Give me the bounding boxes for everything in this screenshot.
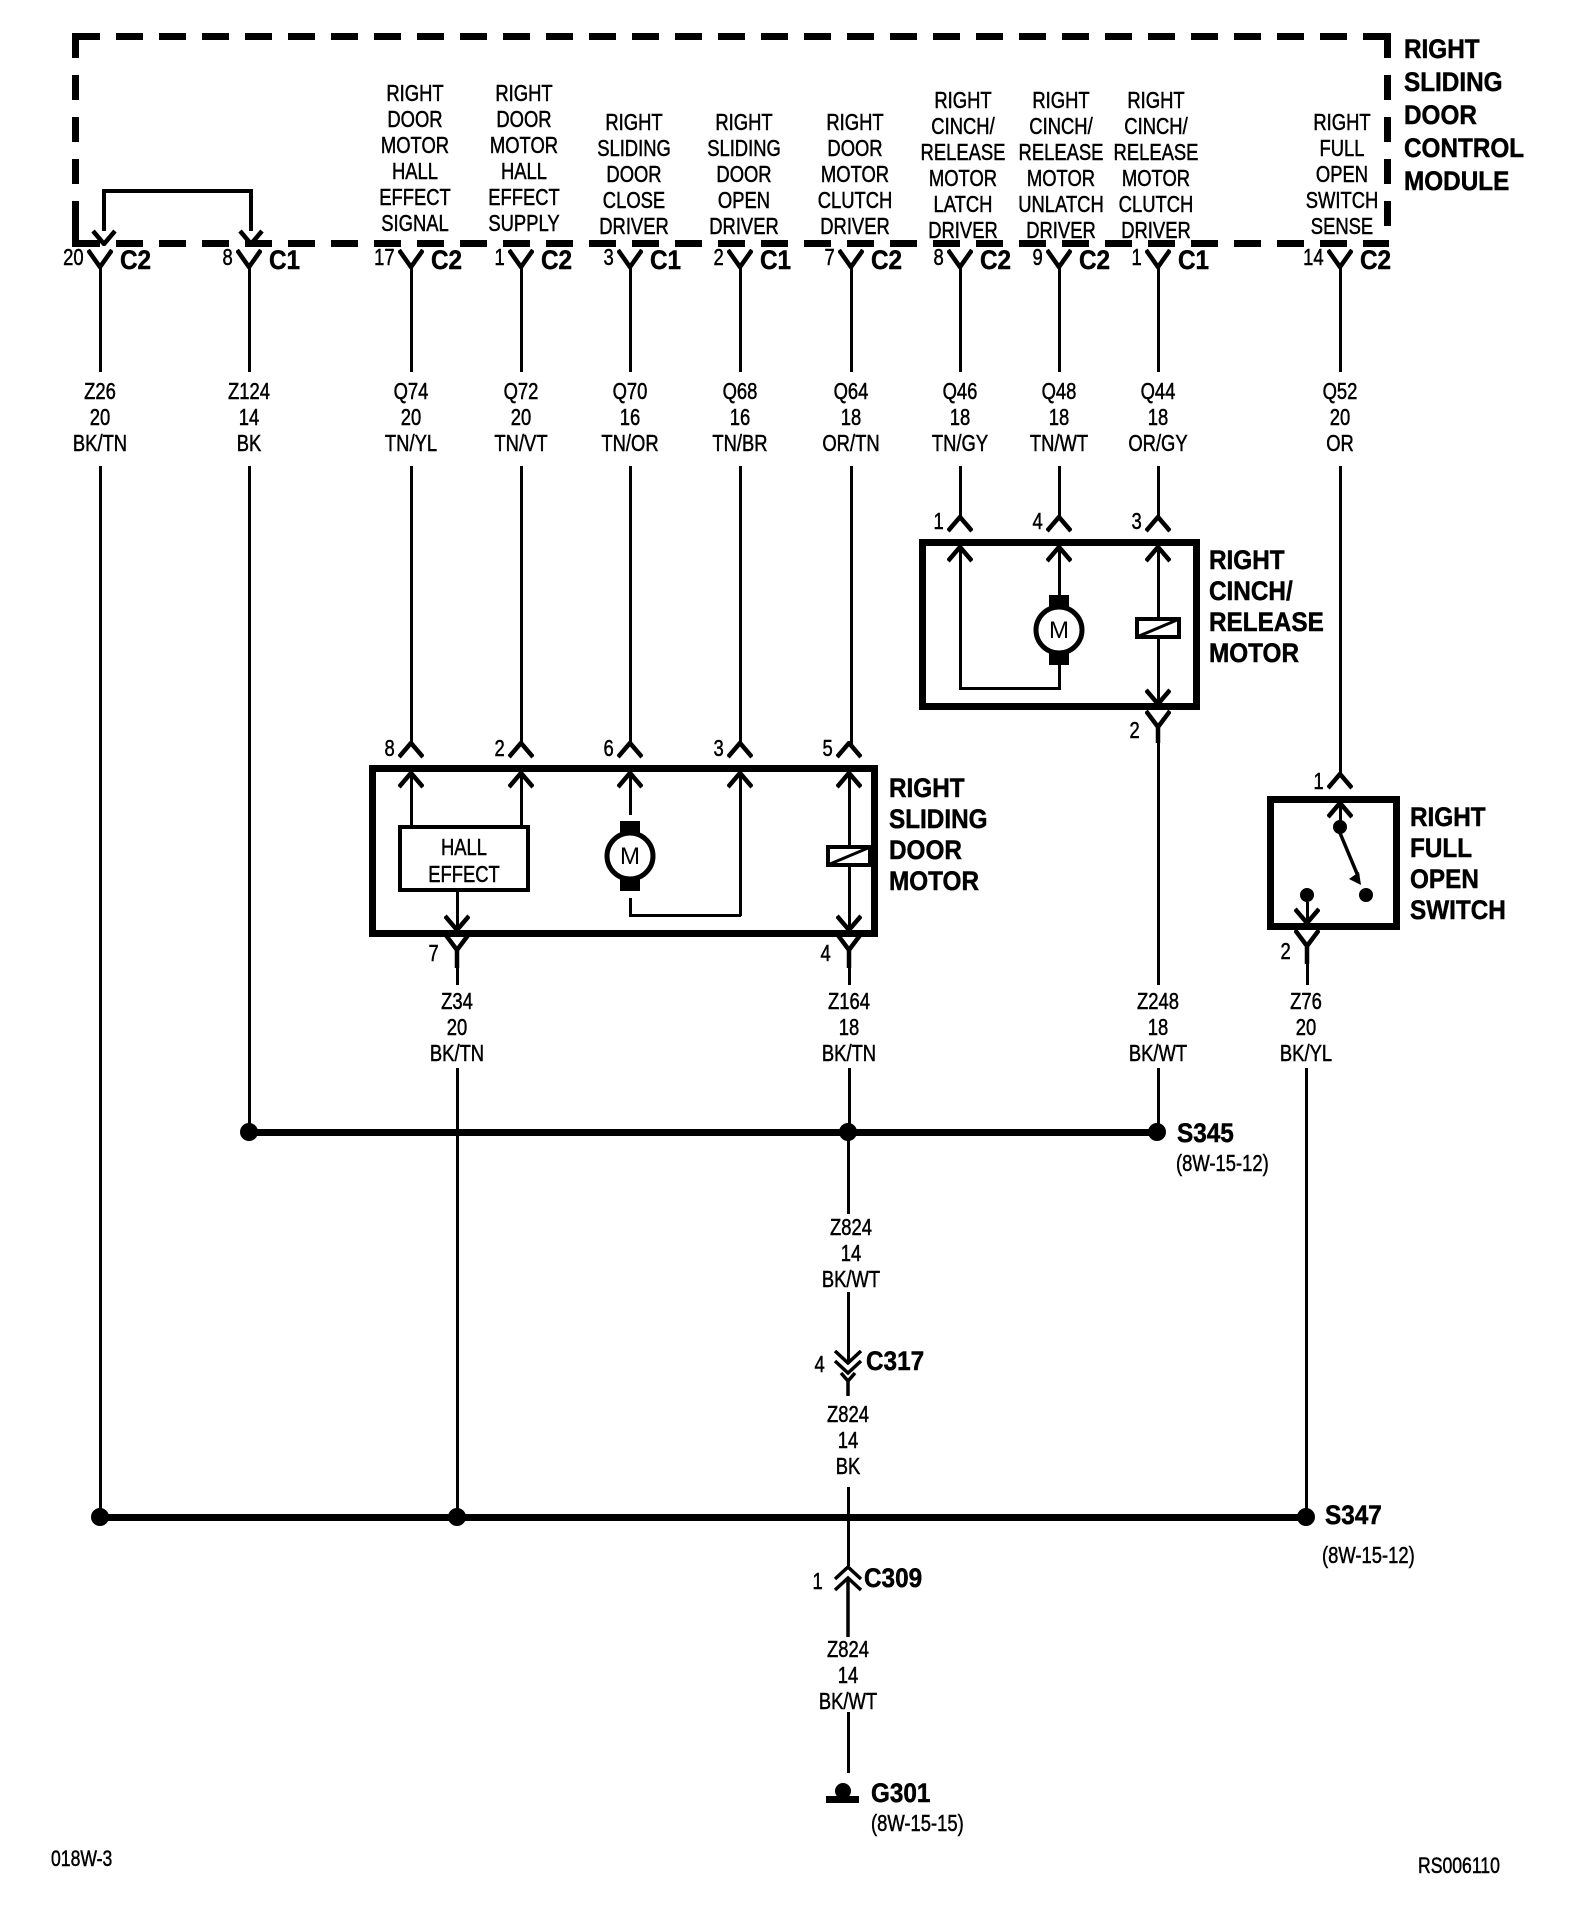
wire Q68 lower segment (739, 466, 742, 745)
switch internal wire to pin 2 (1306, 902, 1309, 922)
ground label G301 (871, 1780, 930, 1807)
pin number 3 (motor box pin 3) (714, 737, 724, 760)
wire Q46 lower segment (959, 466, 962, 519)
wire stem from pin 17 C2 (410, 265, 413, 372)
splice label S347 (1325, 1502, 1382, 1529)
wire label Q64 18 OR/TN (822, 378, 879, 456)
wire Z34 stub (456, 968, 459, 985)
ground G301 (825, 1780, 861, 1804)
module box: RIGHT SLIDING DOOR CONTROL MODULE (dashed outline) (73, 33, 1389, 40)
connector name C2 (1079, 247, 1110, 274)
wire pin 5 to clutch (848, 773, 851, 848)
wire label Z824 14 BK/WT (819, 1214, 884, 1292)
switch common contact (1333, 820, 1347, 834)
motor box pin 8 inner arrow (398, 771, 424, 789)
wire label Q48 18 TN/WT (1030, 378, 1088, 456)
svg-text:M: M (1049, 617, 1069, 644)
wire hall effect to pin 7 (456, 892, 459, 930)
motor box pin 6 entry chevron (617, 741, 643, 759)
motor box pin 4 connector (836, 933, 862, 968)
wire Z34 lower segment (456, 1068, 459, 1517)
wire stem from pin 9 C2 (1058, 265, 1061, 372)
wire stem from pin 2 C1 (739, 265, 742, 372)
wire label Z124 14 BK (228, 378, 270, 456)
pin number 14 (1304, 246, 1324, 269)
motor M sliding door (600, 814, 660, 898)
junction dot S345 middle (Z164/Z824) (839, 1123, 857, 1141)
pin number 2 (motor box pin 2) (495, 737, 505, 760)
junction dot S345 left (Z124) (240, 1123, 258, 1141)
wire Z164 lower segment (848, 1068, 851, 1132)
junction dot S347 (Z34) (448, 1508, 466, 1526)
motor box pin 5 inner arrow (836, 771, 862, 789)
wire label Q44 18 OR/GY (1128, 378, 1187, 456)
cinch internal wire pin 3 to clutch (1157, 547, 1160, 620)
pin number 5 (motor box pin 5) (823, 737, 833, 760)
motor box pin 2 inner arrow (508, 771, 534, 789)
motor box pin 7 inner arrow (444, 914, 470, 932)
in-line connector C317 (833, 1350, 863, 1396)
wire label Q74 20 TN/YL (385, 378, 437, 456)
pin function label for C1 pin 1 (1114, 87, 1199, 243)
bracket arrow left (91, 229, 117, 246)
in-line connector C309 (833, 1563, 863, 1637)
cinch internal wire clutch to pin 2 (1157, 637, 1160, 703)
component label RIGHT FULL OPEN SWITCH (1410, 802, 1506, 926)
wire stem from pin 7 C2 (850, 265, 853, 372)
wire label Z164 18 BK/TN (822, 988, 876, 1066)
wire motor negative lead (629, 898, 632, 916)
switch internal wire (1339, 803, 1342, 824)
motor box pin 3 inner arrow (727, 771, 753, 789)
wire stem from pin 1 C2 (520, 265, 523, 372)
cinch pin 1 inner arrow (947, 545, 973, 563)
wire Q64 lower segment (850, 466, 853, 745)
pin number 8 (motor box pin 8) (385, 737, 395, 760)
pin number 1 (1132, 246, 1142, 269)
wire stem from pin 20 C2 (99, 265, 102, 372)
wire Q48 lower segment (1058, 466, 1061, 519)
pin function label for C2 pin 8 (921, 87, 1006, 243)
module label (1404, 33, 1524, 198)
pin number 7 (motor box pin 7 lower) (429, 942, 439, 965)
wire pin 2 to hall effect (520, 773, 523, 825)
motor box pin 5 entry chevron (836, 741, 862, 759)
wire pin 8 to hall effect (410, 773, 413, 825)
C309 label (864, 1565, 922, 1592)
switch contact (blade side) (1359, 888, 1373, 902)
cinch internal wire from pin 1 (959, 547, 962, 690)
connector name C2 (1360, 247, 1391, 274)
junction dot S345 right (Z248) (1148, 1123, 1166, 1141)
pin number 8 (223, 246, 233, 269)
connector C1 pin 2 (727, 249, 753, 269)
cinch pin 1 entry chevron (947, 515, 973, 533)
clutch coil cinch/release (1135, 617, 1181, 639)
pin number 2 (cinch pin 2) (1130, 719, 1140, 742)
pin number 20 (64, 246, 84, 269)
internal horizontal wire (629, 914, 741, 917)
hall effect label (428, 834, 500, 888)
wire Z124 lower segment (248, 466, 251, 1132)
wire Q44 lower segment (1157, 466, 1160, 519)
wire label Z26 20 BK/TN (73, 378, 127, 456)
component box: RIGHT CINCH/RELEASE MOTOR (919, 539, 1200, 710)
connector name C2 (431, 247, 462, 274)
pin number 3 (604, 246, 614, 269)
C317 label (866, 1348, 924, 1375)
splice label S345 (1177, 1120, 1234, 1147)
wire label Z824 14 BK/WT (lower) (819, 1636, 877, 1714)
pin number 17 (375, 246, 395, 269)
switch pin 2 connector (1294, 929, 1320, 964)
pin number 4 (motor box pin 4 lower) (821, 942, 831, 965)
wire Z248 lower segment (1157, 1068, 1160, 1132)
cinch pin 3 entry chevron (1145, 515, 1171, 533)
wire Q52 lower segment (1339, 466, 1342, 776)
motor box pin 4 inner arrow (836, 914, 862, 932)
component box: RIGHT SLIDING DOOR MOTOR (369, 765, 878, 937)
connector C2 pin 20 (87, 249, 113, 269)
wire stem from pin 3 C1 (629, 265, 632, 372)
pin number 7 (825, 246, 835, 269)
motor M cinch/release (1029, 588, 1089, 672)
connector name C2 (120, 247, 151, 274)
pin function label for C2 pin 9 (1018, 87, 1104, 243)
cinch internal wire pin 4 to motor (1058, 547, 1061, 596)
drawing number RS006110 (1418, 1854, 1500, 1877)
connector C2 pin 1 (508, 249, 534, 269)
pin number 2 (714, 246, 724, 269)
pin function label for C2 pin 17 (379, 80, 451, 236)
wire Q74 lower segment (410, 466, 413, 745)
component box: RIGHT FULL OPEN SWITCH (1267, 796, 1400, 930)
pin function label for C2 pin 14 (1306, 109, 1379, 239)
connector name C1 (650, 247, 681, 274)
svg-text:M: M (620, 843, 640, 870)
connector C2 pin 14 (1327, 249, 1353, 269)
cinch internal wire motor negative lead (1058, 663, 1061, 690)
wire Q72 lower segment (520, 466, 523, 745)
cinch pin 2 inner arrow (1145, 688, 1171, 706)
wire Z26 lower segment (99, 466, 102, 1517)
splice reference (8W-15-12) (1176, 1152, 1269, 1175)
motor box pin 3 entry chevron (727, 741, 753, 759)
wire Z76 stub (1306, 964, 1309, 985)
pin number 2 (switch pin 2) (1281, 940, 1291, 963)
splice bus S347 (100, 1514, 1306, 1521)
wire label Z76 20 BK/YL (1280, 988, 1332, 1066)
motor box pin 8 entry chevron (398, 741, 424, 759)
wire label Z248 18 BK/WT (1129, 988, 1187, 1066)
connector C1 pin 8 (236, 249, 262, 269)
sheet number 018W-3 (51, 1847, 112, 1870)
connector C2 pin 7 (838, 249, 864, 269)
cinch internal wire horizontal (959, 687, 1060, 690)
wire Z824 from S345 (847, 1135, 850, 1363)
pin number 9 (1033, 246, 1043, 269)
connector C2 pin 9 (1046, 249, 1072, 269)
wire label Q70 16 TN/OR (601, 378, 658, 456)
junction dot S347 right (Z76) (1297, 1508, 1315, 1526)
wire label Q46 18 TN/GY (932, 378, 988, 456)
wire Z824 to C309 (847, 1487, 850, 1566)
connector name C1 (760, 247, 791, 274)
cinch pin 4 inner arrow (1046, 545, 1072, 563)
wire Z76 lower segment (1305, 1068, 1308, 1517)
pin number 8 (934, 246, 944, 269)
clutch coil sliding door (826, 845, 872, 867)
pin function label for C1 pin 2 (707, 109, 781, 239)
wire stem from pin 1 C1 (1157, 265, 1160, 372)
connector C1 pin 3 (617, 249, 643, 269)
connector name C2 (871, 247, 902, 274)
motor box pin 7 connector (444, 933, 470, 968)
cinch pin 3 inner arrow (1145, 545, 1171, 563)
wire stem from pin 14 C2 (1339, 265, 1342, 372)
splice reference (8W-15-12) (1322, 1544, 1415, 1567)
wire Q70 lower segment (629, 466, 632, 745)
connector name C2 (541, 247, 572, 274)
wire stem from pin 8 C1 (248, 265, 251, 372)
component label RIGHT SLIDING DOOR MOTOR (889, 773, 988, 897)
hall effect sensor block (398, 825, 530, 892)
pin number 1 (cinch pin 1) (934, 510, 944, 533)
cinch pin 2 connector (1145, 710, 1171, 743)
pin number 1 (switch pin 1) (1314, 770, 1324, 793)
ground reference (8W-15-15) (871, 1812, 964, 1835)
C309 pin number 1 (813, 1570, 823, 1593)
pin number 1 (495, 246, 505, 269)
pin function label for C2 pin 1 (488, 80, 560, 236)
pin function label for C1 pin 3 (597, 109, 671, 239)
pin number 4 (cinch pin 4) (1033, 510, 1043, 533)
wire stem from pin 8 C2 (959, 265, 962, 372)
module box dashed corner bottom-left (72, 216, 79, 247)
wire label Q52 20 OR (1323, 378, 1358, 456)
bracket arrow right (238, 229, 264, 246)
wire Z164 stub (848, 968, 851, 985)
motor box pin 2 entry chevron (508, 741, 534, 759)
internal jumper bracket between pin 20 C2 and pin 8 C1 (102, 189, 253, 193)
pin function label for C2 pin 7 (818, 109, 893, 239)
wire label Q72 20 TN/VT (494, 378, 547, 456)
wire clutch to pin 4 (848, 865, 851, 930)
motor box pin 6 inner arrow (617, 771, 643, 789)
wire label Z824 14 BK (827, 1401, 869, 1479)
splice bus S345 (249, 1129, 1158, 1136)
connector name C1 (1178, 247, 1209, 274)
wire label Z34 20 BK/TN (430, 988, 484, 1066)
junction dot S347 left (Z26) (91, 1508, 109, 1526)
switch pin 1 inner arrow (1327, 801, 1353, 819)
connector name C1 (269, 247, 300, 274)
wire Z248 upper segment (1157, 743, 1160, 985)
wire label Q68 16 TN/BR (712, 378, 767, 456)
wire Z824 to ground (847, 1712, 850, 1773)
switch contact pin 2 (1300, 888, 1314, 902)
switch pin 2 inner arrow (1294, 907, 1320, 925)
cinch pin 4 entry chevron (1046, 515, 1072, 533)
wire pin 6 to motor (629, 773, 632, 815)
pin number 6 (motor box pin 6) (604, 737, 614, 760)
connector C1 pin 1 (1145, 249, 1171, 269)
pin number 3 (cinch pin 3) (1132, 510, 1142, 533)
connector C2 pin 8 (947, 249, 973, 269)
switch pin 1 entry chevron (1327, 772, 1353, 790)
wire pin 3 internal (739, 773, 742, 916)
connector C2 pin 17 (398, 249, 424, 269)
C317 pin number 4 (815, 1353, 825, 1376)
switch blade with arrow (1330, 830, 1376, 902)
component label RIGHT CINCH/RELEASE MOTOR (1209, 545, 1324, 669)
connector name C2 (980, 247, 1011, 274)
